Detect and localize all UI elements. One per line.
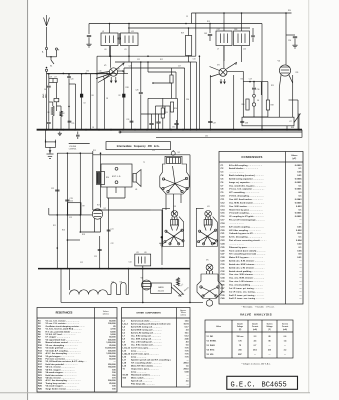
svg-text:C12: C12 xyxy=(51,188,54,190)
svg-text:C21: C21 xyxy=(111,229,114,231)
wire xyxy=(301,130,303,138)
svg-text:Pilot lamps (2) .. .. .. .. ..: Pilot lamps (2) .. .. .. .. .. .. xyxy=(131,383,155,386)
note intermediate frequency xyxy=(106,142,171,150)
svg-text:250,000: 250,000 xyxy=(108,364,116,366)
svg-text:Speaker speech coil and H.T. s: Speaker speech coil and H.T. smoothing c xyxy=(131,359,172,362)
svg-text:C31: C31 xyxy=(172,127,175,129)
svg-text:V5 anode stopper .. .. .. .. .: V5 anode stopper .. .. .. .. .. .. .. .. xyxy=(46,385,77,388)
svg-text:50,000: 50,000 xyxy=(109,320,116,322)
svg-text:C13: C13 xyxy=(69,217,72,219)
svg-text:Heth bias resistor .. .. .. ..: Heth bias resistor .. .. .. .. .. .. .. … xyxy=(46,374,77,377)
valve V3 xyxy=(219,68,227,76)
svg-text:0.004: 0.004 xyxy=(296,239,302,242)
valve V3 cathode arrows xyxy=(220,79,222,84)
resistor R14 xyxy=(170,102,173,112)
svg-text:Part of tone correcting circui: Part of tone correcting circuit .. .. ..… xyxy=(229,239,267,242)
output transformer T2 xyxy=(97,172,105,185)
svg-text:Intermediate frequency 465: Intermediate frequency 465 kc/s. xyxy=(117,145,160,148)
svg-text:—: — xyxy=(187,378,189,380)
svg-text:Values: Values xyxy=(103,311,109,313)
wire aerial lead-in xyxy=(46,27,48,47)
loudspeaker box EXT LS xyxy=(101,164,132,187)
svg-text:Osc. S.W. tuning coil .. .. ..: Osc. S.W. tuning coil .. .. .. .. .. .. xyxy=(131,335,161,338)
svg-text:0.003: 0.003 xyxy=(296,206,302,208)
svg-text:210: 210 xyxy=(268,350,271,352)
svg-text:C30: C30 xyxy=(257,89,260,91)
svg-text:L4: L4 xyxy=(90,291,92,293)
capacitor C13 xyxy=(65,199,69,201)
volume control R9 xyxy=(69,143,90,145)
resistor R13 xyxy=(161,108,164,118)
chassis bus xyxy=(37,129,302,131)
svg-text:1st I.F. trans. (pri.) .. .. .: 1st I.F. trans. (pri.) .. .. .. .. .. .. xyxy=(131,347,159,350)
wire xyxy=(147,62,149,72)
wire rail y137 xyxy=(156,136,302,138)
svg-text:F4: F4 xyxy=(257,100,259,102)
svg-text:Waveband switches .. .. .. ..: Waveband switches .. .. .. .. .. .. xyxy=(131,374,160,377)
wire x123 xyxy=(123,71,125,130)
svg-text:* Voltages to chassis, 230 V,: * Voltages to chassis, 230 V, A.C. xyxy=(241,363,271,366)
svg-text:S45: S45 xyxy=(120,282,123,284)
svg-text:C22: C22 xyxy=(137,59,140,61)
wire xyxy=(278,88,280,117)
resistor R12 xyxy=(170,75,173,83)
svg-text:—: — xyxy=(269,354,271,356)
svg-text:V2: V2 xyxy=(178,152,180,154)
resistor R2 zigzag xyxy=(60,111,63,117)
ground xyxy=(88,42,90,44)
capacitor C20 wire xyxy=(68,74,70,76)
svg-text:Osc. M.W. fixed tracker .. ..: Osc. M.W. fixed tracker .. .. .. .. .. .… xyxy=(229,201,265,204)
capacitor C43 xyxy=(209,24,211,34)
svg-text:V2, V4 fixed bias resistors, A: V2, V4 fixed bias resistors, A.V.C. dela… xyxy=(46,360,87,363)
svg-text:RESISTANCES: RESISTANCES xyxy=(56,312,73,315)
svg-text:Cathode by-pass to V2 .. .. ..: Cathode by-pass to V2 .. .. .. .. .. .. … xyxy=(229,232,266,235)
svg-text:Valve: Valve xyxy=(216,326,221,328)
svg-text:Aerial M.W. tuning coil .. ..: Aerial M.W. tuning coil .. .. .. .. .. . xyxy=(131,329,162,332)
svg-text:.. .. .. .. .. .. .. ..: .. .. .. .. .. .. .. .. xyxy=(229,172,244,174)
wire loop 2 xyxy=(124,67,185,69)
wire rail y81.6 xyxy=(243,81,268,83)
svg-text:H.F. filter coupling .. .. ..: H.F. filter coupling .. .. .. .. .. .. .… xyxy=(229,229,261,232)
capacitor C4 xyxy=(47,85,51,87)
svg-text:C8: C8 xyxy=(92,127,94,129)
svg-text:R14: R14 xyxy=(174,108,177,110)
svg-text:0.002: 0.002 xyxy=(296,230,302,232)
svg-text:(mA): (mA) xyxy=(283,328,287,331)
svg-text:L14,L15: L14,L15 xyxy=(123,353,131,356)
valve V1 xyxy=(109,68,117,76)
tuning capacitor drive xyxy=(103,63,124,80)
svg-text:R13: R13 xyxy=(165,112,168,114)
svg-text:R18: R18 xyxy=(82,234,85,236)
svg-text:C24: C24 xyxy=(129,66,132,68)
svg-text:V2 KTW61: V2 KTW61 xyxy=(207,340,217,342)
svg-text:R12: R12 xyxy=(160,59,163,61)
svg-text:0.6: 0.6 xyxy=(284,336,287,338)
valve V2 electrode stack xyxy=(167,158,181,164)
svg-text:V1 anode coupling .. .. .. ..: V1 anode coupling .. .. .. .. .. .. .. .… xyxy=(229,213,263,215)
IF transformer L10 L11 xyxy=(121,33,139,46)
svg-text:I.F. coupling to V3 grids .. .: I.F. coupling to V3 grids .. .. .. .. ..… xyxy=(229,215,264,218)
capacitor C50 xyxy=(285,13,287,35)
svg-text:Osc. circuit padding .. .. ..: Osc. circuit padding .. .. .. .. .. .. .… xyxy=(229,284,263,287)
capacitor C21 xyxy=(68,120,72,122)
svg-text:V3 DH63: V3 DH63 xyxy=(207,345,215,347)
svg-text:Output trans. (pri.) .. .. ..: Output trans. (pri.) .. .. .. .. .. .. xyxy=(131,368,159,371)
svg-text:(sec.) .. .. .. .. .. ..: (sec.) .. .. .. .. .. .. xyxy=(131,357,147,359)
svg-text:H.T. circ. potential divider .: H.T. circ. potential divider .. .. .. ..… xyxy=(46,330,81,333)
switch S1 xyxy=(50,57,52,60)
earth socket A2 xyxy=(55,48,57,50)
wire xyxy=(69,269,71,290)
svg-text:L11: L11 xyxy=(131,31,134,33)
node xyxy=(140,61,142,63)
wire inner box a xyxy=(148,97,177,99)
svg-text:C26: C26 xyxy=(136,90,139,92)
wire xyxy=(261,24,263,131)
heater winding loops xyxy=(111,282,117,294)
svg-text:Osc. anode A.C. by-pass .. ..: Osc. anode A.C. by-pass .. .. .. .. .. .… xyxy=(229,184,266,187)
svg-text:C12: C12 xyxy=(80,262,83,264)
svg-text:BC4655: BC4655 xyxy=(262,381,287,389)
mains filter box xyxy=(135,254,151,266)
loop box xyxy=(68,203,81,215)
svg-text:A.V.C. line decoupling .. .. .: A.V.C. line decoupling .. .. .. .. .. ..… xyxy=(46,379,81,382)
svg-text:V2: V2 xyxy=(104,208,106,210)
svg-text:R19: R19 xyxy=(207,21,210,23)
svg-text:EXT. L.S.: EXT. L.S. xyxy=(112,176,121,178)
mains transformer box xyxy=(151,283,172,293)
svg-text:2nd I.F. trans. (pri.) .. .. .: 2nd I.F. trans. (pri.) .. .. .. .. .. .. xyxy=(131,353,159,356)
svg-text:C22: C22 xyxy=(111,243,114,245)
wire xyxy=(109,46,111,57)
svg-text:25,000: 25,000 xyxy=(109,345,116,347)
svg-text:R15: R15 xyxy=(93,150,96,152)
svg-text:L12: L12 xyxy=(243,49,246,51)
svg-text:L19: L19 xyxy=(49,76,52,78)
svg-text:R25: R25 xyxy=(271,85,274,87)
svg-text:R10: R10 xyxy=(106,177,109,179)
coil boxes L19 L17 xyxy=(49,78,57,82)
svg-text:Part tone correction .. .. ..: Part tone correction .. .. .. .. .. .. .… xyxy=(46,357,80,360)
svg-text:2.3: 2.3 xyxy=(254,336,257,338)
loudspeaker LS xyxy=(133,174,136,183)
capacitor C21b xyxy=(107,229,111,231)
svg-text:V6: V6 xyxy=(141,278,143,280)
svg-text:L20: L20 xyxy=(144,252,147,254)
wire xyxy=(60,269,62,303)
svg-text:50,000: 50,000 xyxy=(109,337,116,339)
svg-text:OTHER COMPONENTS: OTHER COMPONENTS xyxy=(136,313,161,315)
svg-text:C14: C14 xyxy=(129,262,132,264)
svg-text:A1 to A2 coupling .. .. .. ..: A1 to A2 coupling .. .. .. .. .. .. .. .… xyxy=(229,164,262,167)
aerial socket A1 xyxy=(45,47,47,49)
wire x104 curved xyxy=(104,76,105,130)
svg-text:Tone control (tone switch) ..: Tone control (tone switch) .. .. .. .. .… xyxy=(229,249,266,252)
svg-text:150 osc: 150 osc xyxy=(237,336,244,338)
svg-text:Osc. M.W. tuning coil .. .. ..: Osc. M.W. tuning coil .. .. .. .. .. .. xyxy=(131,338,162,341)
svg-text:50,000: 50,000 xyxy=(109,356,116,358)
wire xyxy=(196,62,198,130)
valve V2 triode xyxy=(92,209,102,219)
svg-text:C20: C20 xyxy=(71,79,74,81)
svg-text:L9: L9 xyxy=(102,31,104,33)
svg-text:L17: L17 xyxy=(54,76,57,78)
node xyxy=(213,242,215,244)
svg-text:R11: R11 xyxy=(53,225,56,227)
svg-text:(V): (V) xyxy=(268,329,271,331)
svg-text:R6: R6 xyxy=(92,95,94,97)
svg-text:R31: R31 xyxy=(296,72,299,74)
wire xyxy=(223,13,225,31)
svg-text:L11: L11 xyxy=(124,49,127,51)
svg-text:H.T. smoothing .. .. .. .. ..: H.T. smoothing .. .. .. .. .. .. .. .. xyxy=(229,191,260,194)
svg-text:S25: S25 xyxy=(112,282,115,284)
svg-text:H.T. smoothing choke .. .. ..: H.T. smoothing choke .. .. .. .. .. .. xyxy=(131,362,162,365)
svg-text:A.V.C. decoupling .. .. .. ..: A.V.C. decoupling .. .. .. .. .. .. .. .… xyxy=(229,236,262,239)
svg-text:Aerial circ. S.W. trimmer .. .: Aerial circ. S.W. trimmer .. .. .. .. ..… xyxy=(229,260,265,263)
svg-text:Mains R.F. by-pass .. .. .. ..: Mains R.F. by-pass .. .. .. .. .. .. .. … xyxy=(229,257,264,259)
svg-text:R30: R30 xyxy=(288,10,291,12)
svg-text:V4 bias resistor .. .. .. .. .: V4 bias resistor .. .. .. .. .. .. .. .. xyxy=(46,377,75,380)
wire rail y215 xyxy=(49,214,93,216)
valve V2 electrodes xyxy=(164,179,176,184)
tuning indicator V6 xyxy=(142,280,152,290)
svg-text:0.0003: 0.0003 xyxy=(295,165,302,167)
svg-text:R2: R2 xyxy=(119,95,121,97)
svg-text:Heth bias potential .. .. .. .: Heth bias potential .. .. .. .. .. .. ..… xyxy=(46,363,78,366)
valve V5 xyxy=(279,65,290,76)
svg-text:Filament by-pass .. .. .. .. .: Filament by-pass .. .. .. .. .. .. .. .. xyxy=(229,246,262,249)
svg-text:Oscillator circuit damping res: Oscillator circuit damping resistor .. .… xyxy=(46,325,86,328)
capacitor stub xyxy=(77,132,79,135)
svg-text:(mA): (mA) xyxy=(253,328,257,331)
svg-text:CONTROL: CONTROL xyxy=(69,149,77,151)
wire rail y74 xyxy=(47,73,111,75)
capacitor C44 trimmer xyxy=(117,37,121,39)
svg-text:Osc. circ. M.W. trimmer .. ..: Osc. circ. M.W. trimmer .. .. .. .. .. .… xyxy=(229,277,265,280)
svg-text:Voltage: Voltage xyxy=(266,325,272,328)
capacitor C48 box xyxy=(234,31,250,46)
capacitor C31 xyxy=(149,123,153,125)
svg-text:V1 osc. C.G. capacitor .. .. .: V1 osc. C.G. capacitor .. .. .. .. .. ..… xyxy=(229,188,265,191)
wire lower loop right edge xyxy=(189,155,191,303)
svg-text:3.2: 3.2 xyxy=(284,350,287,352)
svg-text:CONDENSERS: CONDENSERS xyxy=(241,155,262,159)
wire xyxy=(128,24,130,34)
svg-text:C38: C38 xyxy=(245,122,248,124)
wire xyxy=(131,62,133,130)
svg-text:R18: R18 xyxy=(126,87,129,89)
svg-text:Osc. A.F. fixed tracker .. ..: Osc. A.F. fixed tracker .. .. .. .. .. .… xyxy=(229,198,263,201)
wire aerial down xyxy=(46,73,48,130)
svg-text:Pre-set I.F. trimming (top) ..: Pre-set I.F. trimming (top) .. .. .. .. … xyxy=(229,219,265,222)
svg-text:Aerial tuning capacitor .. ..: Aerial tuning capacitor .. .. .. .. .. .… xyxy=(229,177,264,180)
svg-text:R20: R20 xyxy=(241,79,244,81)
svg-text:200-250: 200-250 xyxy=(158,291,164,293)
svg-text:—: — xyxy=(187,384,189,386)
svg-text:100,000: 100,000 xyxy=(108,323,116,325)
svg-text:L17: L17 xyxy=(289,121,292,123)
wire xyxy=(92,151,94,210)
svg-text:200: 200 xyxy=(238,350,241,352)
svg-text:(ohms): (ohms) xyxy=(103,314,109,316)
svg-text:Earth isolating (receiver) ..: Earth isolating (receiver) .. .. .. .. .… xyxy=(229,174,264,177)
svg-text:C40: C40 xyxy=(99,71,102,73)
node xyxy=(67,239,69,241)
resistor R28 xyxy=(266,100,269,110)
svg-text:L10: L10 xyxy=(104,49,107,51)
svg-text:C37: C37 xyxy=(213,122,216,124)
wire xyxy=(285,62,287,65)
ground xyxy=(294,43,296,45)
wire xyxy=(243,116,268,118)
wire xyxy=(48,74,50,79)
ground xyxy=(161,236,163,238)
svg-text:Aerial blocker .. .. .. .. ..: Aerial blocker .. .. .. .. .. .. .. .. xyxy=(229,167,258,170)
svg-text:V2 osc. decoupling .. .. .. ..: V2 osc. decoupling .. .. .. .. .. .. .. … xyxy=(46,345,79,347)
svg-text:C30: C30 xyxy=(186,99,189,101)
wire xyxy=(56,153,58,268)
svg-text:500,000: 500,000 xyxy=(108,380,116,382)
svg-text:—: — xyxy=(254,354,256,356)
svg-text:C24: C24 xyxy=(126,119,129,121)
svg-text:R19: R19 xyxy=(181,33,184,35)
svg-text:L5: L5 xyxy=(99,291,101,293)
wire HT rail top xyxy=(89,23,262,25)
resistor R19 box xyxy=(188,28,190,36)
wire xyxy=(60,120,62,130)
svg-text:1st I.F. trans. sec. tuning ..: 1st I.F. trans. sec. tuning .. .. .. .. … xyxy=(229,290,264,293)
wire xyxy=(61,301,203,303)
svg-text:* Electrolytic. † Variable.: * Electrolytic. † Variable. ‡ Pre-set. xyxy=(242,305,275,308)
svg-text:9,000: 9,000 xyxy=(110,334,116,336)
svg-text:0.0001: 0.0001 xyxy=(295,182,302,184)
valve V1 cathode arrows xyxy=(110,77,112,83)
wire xyxy=(241,13,243,31)
svg-text:—: — xyxy=(187,375,189,377)
svg-text:0.0001: 0.0001 xyxy=(295,216,302,218)
svg-text:V4 KT61: V4 KT61 xyxy=(207,349,215,352)
svg-text:16.74: 16.74 xyxy=(183,323,189,326)
capacitor C32 xyxy=(156,121,160,123)
svg-text:Mains R.F. filter chokes .. ..: Mains R.F. filter chokes .. .. .. .. .. xyxy=(131,365,162,368)
valve V2 envelope xyxy=(160,156,189,194)
svg-text:C35: C35 xyxy=(205,136,208,138)
svg-text:175: 175 xyxy=(238,340,241,342)
svg-text:C3: C3 xyxy=(83,102,85,104)
svg-text:VALVE ANALYSIS: VALVE ANALYSIS xyxy=(240,312,272,316)
svg-text:Mains switch .. .. .. .. .. ..: Mains switch .. .. .. .. .. .. xyxy=(131,377,154,380)
svg-text:C25: C25 xyxy=(94,256,97,258)
svg-text:L11,L12: L11,L12 xyxy=(123,348,131,350)
resistances table xyxy=(37,308,117,393)
wire xyxy=(198,56,200,130)
capacitor C25 xyxy=(98,249,102,251)
svg-text:Current: Current xyxy=(282,325,289,328)
tuning drive V3 xyxy=(210,67,220,71)
svg-text:R17: R17 xyxy=(97,205,100,207)
svg-text:85: 85 xyxy=(268,336,270,338)
svg-text:C29: C29 xyxy=(249,79,252,81)
svg-text:VOLUME: VOLUME xyxy=(69,146,76,148)
wire xyxy=(285,35,287,62)
other components table xyxy=(122,308,191,388)
svg-text:V3 triode grid leak .. .. .. .: V3 triode grid leak .. .. .. .. .. .. ..… xyxy=(46,347,78,350)
svg-text:Osc. circ. L.W. trimmer .. ..: Osc. circ. L.W. trimmer .. .. .. .. .. .… xyxy=(229,280,264,283)
svg-text:T2: T2 xyxy=(143,162,145,164)
capacitor C26 xyxy=(139,92,143,94)
capacitor C30 xyxy=(253,82,255,88)
svg-text:L2: L2 xyxy=(71,291,73,293)
svg-text:Osc. S.W. reaction coil .. ..: Osc. S.W. reaction coil .. .. .. .. .. . xyxy=(131,344,162,347)
svg-text:V3: V3 xyxy=(174,206,176,208)
mains dropper zigzag xyxy=(177,278,180,287)
wire xyxy=(142,266,144,269)
svg-text:C36: C36 xyxy=(86,71,89,73)
ground xyxy=(59,132,61,134)
svg-text:Aerial S.W. tuning coil .. ..: Aerial S.W. tuning coil .. .. .. .. .. . xyxy=(131,326,162,329)
wire xyxy=(191,13,193,24)
resistor R26 xyxy=(246,99,249,110)
svg-text:C9: C9 xyxy=(186,16,188,18)
svg-text:8,000: 8,000 xyxy=(110,331,116,333)
wire xyxy=(106,187,108,198)
wire xyxy=(161,210,163,265)
wire xyxy=(94,219,96,233)
svg-text:Values: Values xyxy=(291,155,298,157)
wire xyxy=(75,84,77,130)
svg-text:(ohms): (ohms) xyxy=(181,315,187,317)
svg-text:R28: R28 xyxy=(271,105,274,107)
capacitor C47 box xyxy=(216,31,232,46)
svg-text:0.7: 0.7 xyxy=(254,345,257,347)
svg-text:S1-S9: S1-S9 xyxy=(123,375,129,377)
wire xyxy=(242,82,244,117)
svg-text:Aerial circuit padding .. .. .: Aerial circuit padding .. .. .. .. .. ..… xyxy=(229,270,264,273)
condensers table xyxy=(219,152,303,305)
svg-text:.. .. .. .. .. .. .. ..: .. .. .. .. .. .. .. .. xyxy=(229,243,244,245)
wire xyxy=(127,269,129,295)
wire xyxy=(153,82,172,84)
svg-text:C34: C34 xyxy=(193,59,196,61)
svg-text:Screen: Screen xyxy=(267,324,273,326)
svg-text:H.T. smoothing (reservoir) ..: H.T. smoothing (reservoir) .. .. .. .. .… xyxy=(229,253,266,256)
svg-text:0.0005: 0.0005 xyxy=(295,178,302,180)
svg-text:MAINS: MAINS xyxy=(158,286,164,289)
svg-text:Current: Current xyxy=(252,325,259,328)
capacitor C38 xyxy=(240,120,244,122)
svg-text:R26: R26 xyxy=(242,104,245,106)
capacitor C37 xyxy=(208,121,212,123)
svg-text:R16: R16 xyxy=(62,229,65,231)
wire x97 xyxy=(96,74,98,130)
svg-text:C21: C21 xyxy=(72,123,75,125)
svg-text:Osc. circ. S.W. trimmer .. ..: Osc. circ. S.W. trimmer .. .. .. .. .. .… xyxy=(229,273,264,276)
svg-text:220*: 220* xyxy=(238,354,242,356)
wire xyxy=(79,153,81,232)
svg-text:C47: C47 xyxy=(217,29,220,31)
svg-text:V1 S.G. H.T. feed .. .. .. ..: V1 S.G. H.T. feed .. .. .. .. .. .. .. .… xyxy=(46,334,76,336)
svg-text:1st I.F. trans. pri. tuning ..: 1st I.F. trans. pri. tuning .. .. .. .. … xyxy=(229,287,263,290)
mains lead xyxy=(171,287,179,294)
wire inner box c xyxy=(141,113,165,115)
svg-text:3,700: 3,700 xyxy=(110,329,116,331)
svg-text:25,000: 25,000 xyxy=(109,383,116,385)
svg-text:R9: R9 xyxy=(83,206,85,208)
svg-text:Anode: Anode xyxy=(237,323,242,326)
